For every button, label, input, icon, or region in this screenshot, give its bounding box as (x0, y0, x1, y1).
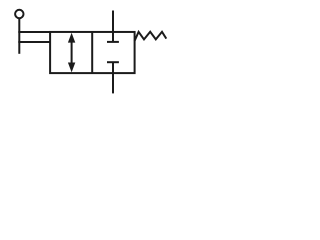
lever post (18, 18, 20, 54)
flow arrow head bottom (68, 63, 75, 73)
valve body (two-position envelope) (50, 32, 135, 73)
bottom blocked port crossbar (107, 61, 119, 63)
bottom port line (112, 62, 114, 93)
lever upper link (18, 31, 50, 33)
position divider (91, 32, 93, 73)
flow arrow head top (68, 33, 75, 43)
top port line (112, 11, 114, 42)
top blocked port crossbar (107, 41, 119, 43)
flow arrow shaft (left box, two-way flow) (71, 40, 73, 65)
lever knob (circle) (15, 10, 23, 18)
return spring (135, 32, 167, 41)
lever lower link (18, 41, 50, 43)
